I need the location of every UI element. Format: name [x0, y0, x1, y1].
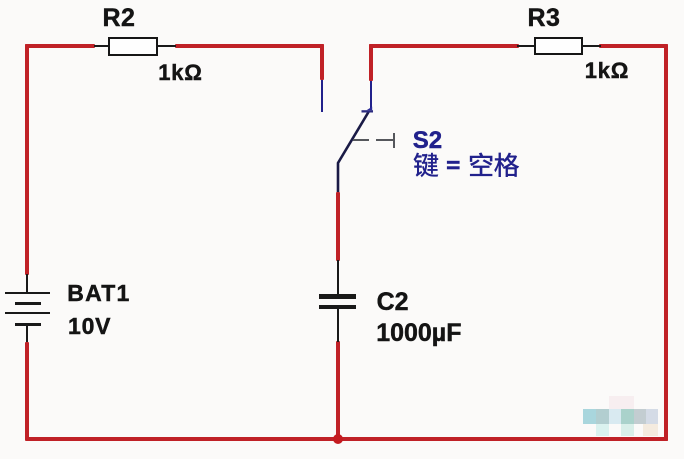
- switch S2 pin 2 (right, pivot): [370, 81, 372, 110]
- value label 10V: [68, 315, 111, 338]
- capacitor C2 bottom plate: [319, 305, 356, 310]
- wire: stub down from top-right wire to switch pin 2: [369, 44, 373, 81]
- capacitor C2 top pin lead: [337, 260, 339, 294]
- switch S2 actuator dashed line with key bar: [353, 133, 396, 149]
- battery BAT1 plate: short (-) upper: [15, 302, 41, 305]
- junction: bottom node dot: [333, 434, 343, 444]
- switch S2 blade: [330, 100, 380, 195]
- watermark mosaic pale second row: [583, 424, 658, 437]
- wire: stub down from top-left wire to switch pin 1: [320, 44, 324, 80]
- label BAT1: [67, 282, 130, 305]
- wire: capacitor C2 bottom to bottom wire: [336, 341, 340, 439]
- battery BAT1 top pin lead: [26, 274, 28, 292]
- resistor R2 left pin lead: [94, 45, 109, 47]
- label R3: [528, 6, 561, 31]
- value label R2 = 1k&#937;: [158, 62, 203, 84]
- value label: key = space (Chinese): [410, 148, 525, 182]
- wire: top-right horizontal (R3 right lead to right corner): [599, 44, 668, 48]
- value label R3 = 1k&#937;: [585, 60, 630, 82]
- watermark mosaic row faint top: [609, 396, 634, 409]
- wire: top-right horizontal (switch pin 2 to R3 left lead): [369, 44, 519, 48]
- battery BAT1 plate: long (+) lower: [5, 312, 50, 314]
- switch S2 arrowhead at pivot: [358, 103, 375, 115]
- wire: bottom horizontal: [25, 437, 668, 441]
- resistor R3 left pin lead: [517, 45, 535, 47]
- label S2: [413, 129, 442, 153]
- resistor R2 body: [108, 37, 158, 56]
- wire: left vertical (battery - down to bottom corner): [25, 342, 29, 440]
- wire: switch blade bottom to capacitor C2 top: [336, 192, 340, 261]
- value label 1000uF: [376, 321, 461, 346]
- battery BAT1 plate: short (-) lower: [15, 323, 41, 326]
- wire: top-left horizontal (R2 right lead to switch-left corner): [175, 44, 324, 48]
- battery BAT1 bottom pin lead: [26, 325, 28, 342]
- wire: left vertical (top corner down to battery +): [25, 44, 29, 275]
- switch S2 pin 1 (left, open contact): [321, 80, 323, 112]
- resistor R3 right pin lead: [583, 45, 601, 47]
- label R2: [103, 6, 136, 31]
- resistor R2 right pin lead: [156, 45, 176, 47]
- watermark mosaic main row: [583, 409, 658, 424]
- battery BAT1 plate: long (+) upper: [5, 292, 50, 294]
- capacitor C2 bottom pin lead: [337, 309, 339, 342]
- label C2: [377, 290, 409, 315]
- resistor R3 body: [534, 37, 584, 56]
- wire: top-left horizontal (corner to R2 left lead): [25, 44, 95, 48]
- capacitor C2 top plate: [319, 294, 356, 299]
- wire: right vertical: [664, 44, 668, 441]
